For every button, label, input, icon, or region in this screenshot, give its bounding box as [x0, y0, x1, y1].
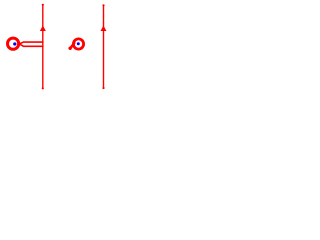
endpoint dot top of left wire — [42, 4, 44, 6]
node dot inside P1 — [13, 42, 16, 45]
endpoint dot bottom of left wire — [42, 87, 44, 89]
node dot inside P2 — [77, 42, 80, 45]
wire: left vertical net — [42, 4, 43, 89]
stub end blob — [68, 47, 71, 50]
wire: upper lead of twin line — [19, 42, 43, 44]
wire: right vertical net — [103, 5, 104, 89]
arrowhead on left vertical wire — [40, 25, 46, 31]
endpoint dot top of right wire — [102, 4, 104, 6]
stub on P2 lower-left — [70, 43, 74, 49]
port P2: middle terminal ring — [73, 39, 83, 49]
endpoint dot bottom of right wire — [102, 87, 104, 89]
arrowhead on right vertical wire — [100, 26, 106, 32]
wire: lower lead of twin line — [19, 44, 43, 46]
port P1: left terminal ring — [8, 38, 19, 49]
